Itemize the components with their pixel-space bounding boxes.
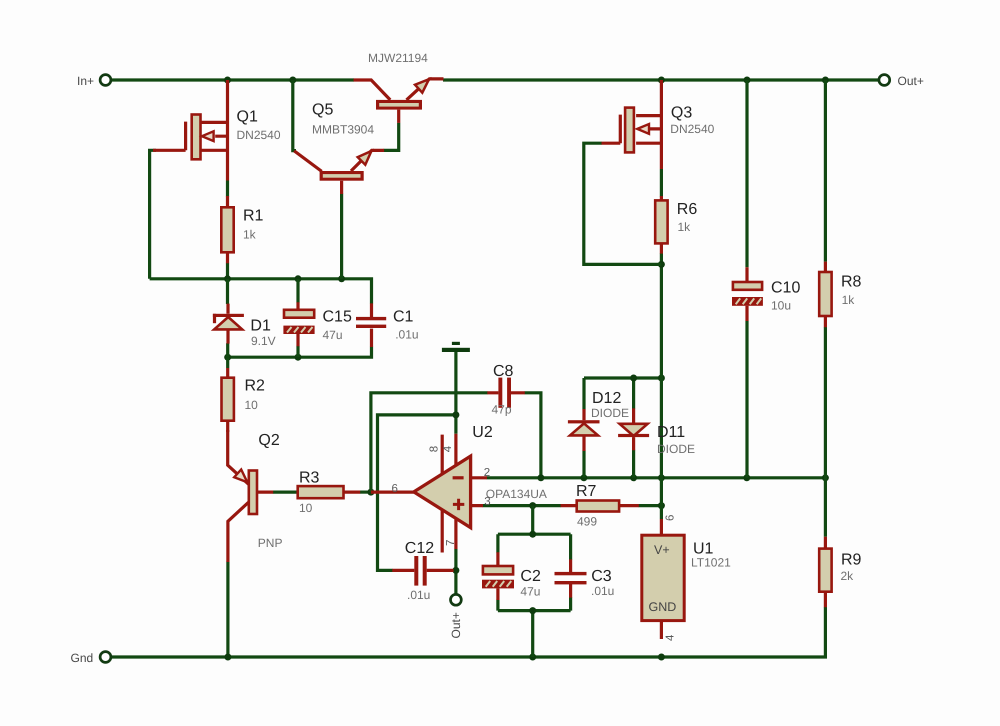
node terminal Out+ top right xyxy=(879,75,890,86)
node label Out+ top right xyxy=(898,74,924,88)
label R2 xyxy=(245,377,266,394)
value DN2540 (Q3) xyxy=(670,122,714,136)
node junction pin2 row / C10 xyxy=(743,474,750,481)
node junction diode row / D11 xyxy=(630,375,637,382)
svg-text:DIODE: DIODE xyxy=(657,442,695,456)
value OPA134UA (U2) xyxy=(486,487,547,501)
value .01u (C12) xyxy=(407,588,430,602)
node junction A / R1-D1 xyxy=(224,275,231,282)
wire R9 bottom to Gnd rail xyxy=(824,607,827,657)
wire C15 bottom lead xyxy=(296,346,299,357)
capacitor C2 (47u polarized) xyxy=(482,552,514,600)
svg-text:1k: 1k xyxy=(678,220,692,234)
pin 4 (U1, rotated) xyxy=(664,634,676,641)
wire C2-C3 riser xyxy=(531,506,534,535)
voltage reference U1 (LT1021) xyxy=(642,519,684,639)
node label Gnd xyxy=(71,651,94,665)
wire Q2 collector to Gnd rail xyxy=(226,562,229,658)
pin 6 (U2 output) xyxy=(392,483,398,495)
transistor Q5 (MMBT3904 NPN) xyxy=(294,150,384,194)
resistor R1 xyxy=(221,196,233,263)
svg-text:C8: C8 xyxy=(493,363,514,380)
node junction Gnd rail / U1 pin4 xyxy=(658,654,665,661)
wire Out+ top rail xyxy=(443,78,878,81)
label R9 xyxy=(841,551,862,568)
pin 8 (U2, rotated) xyxy=(428,446,440,452)
svg-text:R7: R7 xyxy=(576,483,597,500)
wire R7 right to U1 xyxy=(639,504,662,507)
node junction C12 / pin7 / Out+ xyxy=(452,567,459,574)
svg-text:C10: C10 xyxy=(771,280,800,297)
svg-text:6: 6 xyxy=(664,515,676,521)
svg-text:4: 4 xyxy=(442,445,454,452)
label D1 xyxy=(250,318,271,335)
wire C15 top lead xyxy=(296,279,299,303)
resistor R8 xyxy=(819,262,831,328)
wire C10 bottom lead xyxy=(745,321,748,478)
wire feedback to C8 left xyxy=(371,393,488,492)
node junction C2-C3 top xyxy=(529,531,536,538)
wire inverting input row (pin 2 net) xyxy=(487,476,826,479)
svg-text:C1: C1 xyxy=(393,308,414,325)
svg-text:47p: 47p xyxy=(492,403,512,417)
node junction R6 bottom / gate loop xyxy=(658,261,665,268)
svg-text:MJW21194: MJW21194 xyxy=(368,51,428,65)
label Q5 xyxy=(312,102,333,119)
wire diode top row xyxy=(584,378,661,409)
wire main right vertical R6 to U1 xyxy=(660,253,663,519)
value 499 (R7) xyxy=(577,514,597,528)
label C15 xyxy=(323,308,352,325)
svg-text:1k: 1k xyxy=(842,293,856,307)
wire R1 bottom to node A xyxy=(226,263,229,279)
ground symbol (U2 V- reference) xyxy=(442,342,470,352)
node junction pin2 row / D12 xyxy=(580,474,587,481)
label C10 xyxy=(771,280,800,297)
svg-text:Q2: Q2 xyxy=(258,432,279,449)
wire R3 to U2 output node xyxy=(360,491,371,494)
wire D11 bottom lead xyxy=(632,450,635,478)
wire node B row (zener/cap bottom rail) xyxy=(228,347,372,357)
label R1 xyxy=(243,208,264,225)
pin 4 (U2, rotated) xyxy=(442,445,454,452)
node junction U2 output / feedback xyxy=(367,489,374,496)
node terminal Out+ mid xyxy=(451,594,462,605)
value 10 (R2) xyxy=(245,398,259,412)
node junction C2-C3 bottom xyxy=(529,607,536,614)
svg-text:Out+: Out+ xyxy=(449,612,463,638)
svg-text:10: 10 xyxy=(299,501,313,515)
value 47u (C15) xyxy=(323,328,343,342)
node junction Out+ rail / Q3 drain xyxy=(658,77,665,84)
value DIODE (D12) xyxy=(591,406,629,420)
wire non-inverting input row (pin 3 net) xyxy=(483,504,561,507)
svg-text:Q1: Q1 xyxy=(237,109,258,126)
svg-text:9.1V: 9.1V xyxy=(251,334,276,348)
svg-text:8: 8 xyxy=(428,446,440,452)
wire D1 bottom lead xyxy=(226,343,229,357)
value 1k (R8) xyxy=(842,293,856,307)
node junction pin2 row / D11 xyxy=(630,474,637,481)
op-amp U2 (OPA134UA) xyxy=(371,434,487,553)
svg-text:499: 499 xyxy=(577,514,597,528)
label U1 xyxy=(693,541,714,558)
label R6 xyxy=(677,201,698,218)
svg-text:2k: 2k xyxy=(841,569,855,583)
node junction Out+ rail / C10 xyxy=(744,77,751,84)
resistor R2 xyxy=(222,368,234,432)
value 9.1V (D1) xyxy=(251,334,276,348)
svg-text:.01u: .01u xyxy=(395,328,418,342)
node junction pin2 row / C8 xyxy=(537,474,544,481)
transistor Q2 (PNP) xyxy=(228,430,274,562)
svg-text:10: 10 xyxy=(245,398,259,412)
label C1 xyxy=(393,308,414,325)
label C2 xyxy=(520,568,541,585)
value .01u (C3) xyxy=(591,584,614,598)
svg-text:C12: C12 xyxy=(405,540,434,557)
label C3 xyxy=(591,568,612,585)
svg-text:R2: R2 xyxy=(245,377,266,394)
wire C8 right to inverting input xyxy=(525,393,541,478)
resistor R9 (2k) xyxy=(819,537,831,607)
svg-text:C15: C15 xyxy=(323,308,352,325)
pin 2 (U2 inverting) xyxy=(484,467,490,479)
capacitor C12 (.01u) xyxy=(392,556,453,586)
node junction Gnd rail / Q2 collector xyxy=(224,654,231,661)
label C12 xyxy=(405,540,434,557)
svg-text:LT1021: LT1021 xyxy=(691,555,731,569)
svg-text:D1: D1 xyxy=(250,318,271,335)
value DIODE (D11) xyxy=(657,442,695,456)
wire Q3 gate loop xyxy=(584,143,662,264)
transistor Q3 (DN2540 depletion MOSFET) xyxy=(602,80,662,169)
node junction In+ rail / Q5 collector xyxy=(289,77,296,84)
label U2 xyxy=(472,424,493,441)
svg-text:D12: D12 xyxy=(592,390,621,407)
svg-text:Gnd: Gnd xyxy=(71,651,94,665)
wire MJW21194 base to Q5 emitter xyxy=(384,123,399,151)
wire D1 top lead xyxy=(226,279,229,304)
wire R8 bottom to R9 top xyxy=(824,327,827,537)
node label In+ xyxy=(77,74,94,88)
label R7 xyxy=(576,483,597,500)
value 10 (R3) xyxy=(299,501,313,515)
svg-text:3: 3 xyxy=(484,496,490,508)
diode D1 (9.1V zener) xyxy=(213,304,244,344)
svg-text:R8: R8 xyxy=(841,274,862,291)
value DN2540 (Q1) xyxy=(237,128,281,142)
wire C2-C3 top row xyxy=(498,534,571,560)
pin 6 (U1, rotated) xyxy=(664,515,676,521)
svg-text:2: 2 xyxy=(484,467,490,479)
node terminal In+ xyxy=(100,75,111,86)
transistor MJW21194 (pass NPN) xyxy=(354,79,444,123)
svg-text:R3: R3 xyxy=(299,469,320,486)
resistor R7 (499) xyxy=(561,501,639,512)
value .01u (C1) xyxy=(395,328,418,342)
wire Q5 base drop xyxy=(340,194,343,279)
svg-text:C2: C2 xyxy=(520,568,541,585)
svg-text:Q3: Q3 xyxy=(671,105,692,122)
value 1k (R1) xyxy=(243,228,257,242)
capacitor C10 (10u polarized) xyxy=(732,267,763,321)
transistor Q1 (DN2540 depletion MOSFET) xyxy=(153,80,228,181)
node junction A / C15 xyxy=(295,275,302,282)
node junction B / D1-R2 xyxy=(224,354,231,361)
diode D12 xyxy=(568,409,600,451)
pin 7 (U2, rotated) xyxy=(445,540,457,546)
label D12 xyxy=(592,390,621,407)
label R8 xyxy=(841,274,862,291)
wire Q1 gate loop xyxy=(150,150,156,278)
wire C2-C3 bottom row xyxy=(498,597,571,657)
node junction pin2 row / R8-R9 xyxy=(822,474,829,481)
value 2k (R9) xyxy=(841,569,855,583)
capacitor C15 (47u polarized) xyxy=(283,302,314,346)
node junction In+ rail / Q1 drain xyxy=(224,77,231,84)
svg-text:10u: 10u xyxy=(771,299,791,313)
node junction ground stem xyxy=(452,411,459,418)
value 47u (C2) xyxy=(520,584,540,598)
svg-text:47u: 47u xyxy=(323,328,343,342)
node junction B / C15 xyxy=(295,354,302,361)
label C8 xyxy=(493,363,514,380)
svg-text:R1: R1 xyxy=(243,208,264,225)
svg-text:R6: R6 xyxy=(677,201,698,218)
svg-text:7: 7 xyxy=(445,540,457,546)
svg-text:4: 4 xyxy=(664,634,676,641)
svg-text:OPA134UA: OPA134UA xyxy=(486,487,547,501)
capacitor C3 (.01u) xyxy=(555,559,587,597)
wire Q3 source to R6 gap xyxy=(660,169,663,197)
svg-text:1k: 1k xyxy=(243,228,257,242)
svg-text:Q5: Q5 xyxy=(312,102,333,119)
node junction A / Q5 base xyxy=(338,275,345,282)
wire U2 pin7 to Out+ terminal xyxy=(454,549,457,594)
value 47p (C8) xyxy=(492,403,512,417)
capacitor C1 (.01u) xyxy=(356,303,386,347)
node junction Out+ rail / R8 xyxy=(822,77,829,84)
label Q3 xyxy=(671,105,692,122)
svg-text:C3: C3 xyxy=(591,568,612,585)
svg-text:Out+: Out+ xyxy=(898,74,924,88)
value MMBT3904 (Q5) xyxy=(312,122,374,136)
wire ground stem and V- bypass run xyxy=(378,352,456,570)
resistor R6 xyxy=(655,196,667,254)
value MJW21194 xyxy=(368,51,428,65)
diode D11 xyxy=(618,408,649,450)
value LT1021 (U1) xyxy=(691,555,731,569)
svg-text:.01u: .01u xyxy=(591,584,614,598)
wire In+ top rail xyxy=(112,78,354,81)
value 10u (C10) xyxy=(771,299,791,313)
svg-text:DN2540: DN2540 xyxy=(670,122,714,136)
label D11 xyxy=(657,424,685,441)
wire Q1 source to R1 gap xyxy=(226,181,229,197)
svg-text:GND: GND xyxy=(649,600,677,614)
node junction pin3 row / C2-C3 riser xyxy=(529,502,536,509)
wire Q5 collector riser xyxy=(293,80,296,151)
node junction Gnd rail / C2-C3 xyxy=(529,654,536,661)
resistor R3 xyxy=(298,486,361,498)
svg-text:DN2540: DN2540 xyxy=(237,128,281,142)
node junction R7 / U1 pin6 xyxy=(658,502,665,509)
wire R2 top lead xyxy=(226,357,229,368)
svg-text:PNP: PNP xyxy=(258,536,283,550)
svg-text:R9: R9 xyxy=(841,551,862,568)
pin 3 (U2 non-inverting) xyxy=(484,496,490,508)
wire R8 top lead xyxy=(824,80,827,262)
svg-text:U2: U2 xyxy=(472,424,493,441)
svg-text:In+: In+ xyxy=(77,74,94,88)
svg-text:MMBT3904: MMBT3904 xyxy=(312,122,374,136)
svg-text:.01u: .01u xyxy=(407,588,430,602)
wire Q2 base to R3 xyxy=(273,491,298,494)
label R3 xyxy=(299,469,320,486)
svg-text:V+: V+ xyxy=(654,543,670,557)
wire node A row (zener/cap top rail) xyxy=(150,279,372,304)
capacitor C8 (47p) xyxy=(487,378,525,408)
node label Out+ mid (rotated) xyxy=(449,612,463,638)
wire Gnd bottom rail xyxy=(112,655,827,658)
wire C10 top lead xyxy=(745,80,748,267)
svg-text:6: 6 xyxy=(392,483,398,495)
wire D12 bottom lead xyxy=(582,451,585,478)
value 1k (R6) xyxy=(678,220,692,234)
label Q2 xyxy=(258,432,279,449)
svg-text:D11: D11 xyxy=(657,424,685,441)
label Q1 xyxy=(237,109,258,126)
svg-text:DIODE: DIODE xyxy=(591,406,629,420)
node terminal Gnd xyxy=(100,652,111,663)
node junction diode row / main vertical xyxy=(658,375,665,382)
value PNP (Q2) xyxy=(258,536,283,550)
node junction pin2 row / main vertical xyxy=(658,474,665,481)
svg-text:47u: 47u xyxy=(520,584,540,598)
